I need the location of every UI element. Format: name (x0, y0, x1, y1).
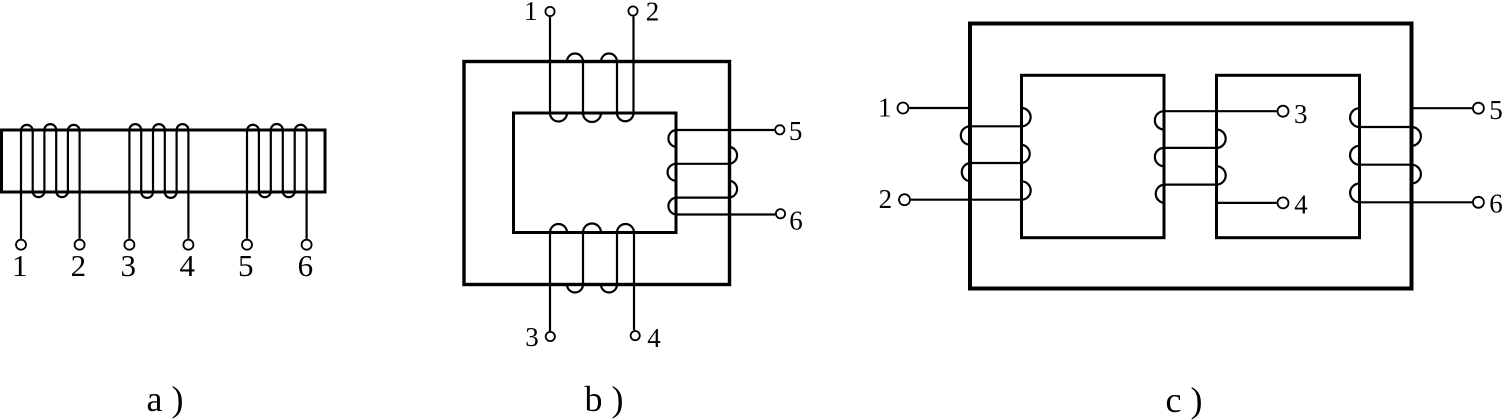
right window rectangle (part c) (1217, 75, 1360, 237)
terminal 6 (part a) (298, 240, 314, 283)
svg-text:b ): b ) (585, 379, 624, 419)
svg-text:6: 6 (789, 206, 803, 236)
svg-text:4: 4 (179, 248, 195, 283)
outer core rectangle (part c) (970, 24, 1412, 289)
svg-text:a ): a ) (147, 379, 184, 419)
winding 3-4 (part c center leg) wire turns (1155, 111, 1277, 203)
svg-text:5: 5 (238, 248, 254, 283)
terminal 1 (part a) (12, 240, 28, 283)
svg-text:3: 3 (1294, 99, 1308, 129)
terminal 6 (part c) (1473, 189, 1503, 219)
terminal 4 (part b) (631, 323, 662, 353)
svg-text:1: 1 (12, 248, 28, 283)
terminal 3 (part b) (525, 322, 555, 352)
winding L3 (part a) wire turns (247, 124, 307, 239)
svg-text:3: 3 (525, 322, 539, 352)
terminal 4 (part a) (179, 240, 195, 283)
terminal 3 (part c) (1278, 99, 1308, 129)
svg-text:2: 2 (879, 184, 893, 214)
left window rectangle (part c) (1022, 75, 1165, 237)
svg-text:3: 3 (120, 248, 136, 283)
svg-text:2: 2 (71, 248, 87, 283)
svg-text:2: 2 (646, 0, 660, 27)
terminal 1 (part c) (878, 93, 908, 123)
svg-text:c ): c ) (1166, 380, 1203, 420)
svg-text:6: 6 (1489, 189, 1503, 219)
svg-text:1: 1 (524, 0, 538, 26)
outer core rectangle (part b) (464, 62, 730, 285)
terminal 1 (part b) (524, 0, 555, 26)
winding L1 (part a) wire turns (21, 124, 80, 239)
terminal 2 (part a) (71, 240, 87, 283)
core bar (part a) (2, 130, 326, 192)
winding L2 (part a) wire turns (129, 124, 188, 239)
winding 1-2 (part c left leg) wire turns (909, 108, 1030, 200)
terminal 3 (part a) (120, 240, 136, 283)
winding 5-6 (part b right) wire turns (668, 130, 775, 215)
svg-text:5: 5 (1489, 95, 1503, 125)
winding 5-6 (part c right leg) wire turns (1350, 108, 1472, 202)
terminal 5 (part c) (1473, 95, 1503, 125)
terminal 6 (part b) (776, 206, 803, 236)
terminal 2 (part b) (628, 0, 659, 27)
svg-text:1: 1 (878, 93, 892, 123)
terminal 5 (part b) (775, 116, 802, 146)
winding 1-2 (part b top) wire turns (550, 17, 634, 123)
winding 3-4 (part b bottom) wire turns (550, 224, 634, 332)
window rectangle (part b) (514, 113, 677, 233)
svg-text:4: 4 (647, 323, 661, 353)
svg-text:5: 5 (789, 116, 803, 146)
terminal 4 (part c) (1278, 190, 1309, 220)
terminal 2 (part c) (879, 184, 910, 214)
svg-text:4: 4 (1294, 190, 1308, 220)
terminal 5 (part a) (238, 240, 254, 283)
svg-text:6: 6 (298, 248, 314, 283)
